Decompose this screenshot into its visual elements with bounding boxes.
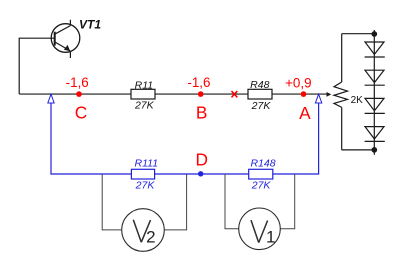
diode D3 xyxy=(365,98,385,113)
svg-text:-1,6: -1,6 xyxy=(66,75,89,90)
diode D1 xyxy=(365,42,385,57)
node B xyxy=(198,91,204,97)
resistor R11 xyxy=(131,79,155,111)
svg-text:R148: R148 xyxy=(250,158,275,170)
svg-text:R111: R111 xyxy=(135,158,159,170)
wire V2 meter loop xyxy=(102,174,186,230)
resistor R48 xyxy=(248,79,272,112)
break mark x on wire xyxy=(232,91,238,97)
wire main horizontal bus xyxy=(19,93,327,95)
svg-text:27K: 27K xyxy=(135,179,156,191)
wire diode column xyxy=(373,30,375,155)
voltmeter V2 xyxy=(122,209,165,252)
wiper arrow into potentiometer xyxy=(327,92,332,97)
svg-text:D: D xyxy=(195,149,207,169)
svg-text:-1,6: -1,6 xyxy=(187,75,210,90)
resistor R148 xyxy=(249,158,276,192)
node D xyxy=(198,171,203,176)
svg-text:27K: 27K xyxy=(251,179,272,191)
node C xyxy=(76,91,82,97)
wire blue probe loop xyxy=(51,103,319,174)
resistor R111 xyxy=(131,158,158,192)
wire left vertical and base feed xyxy=(19,38,55,94)
node A xyxy=(301,91,307,97)
diode D2 xyxy=(365,70,385,85)
transistor Q1 VT1 xyxy=(51,20,80,58)
svg-text:+0,9: +0,9 xyxy=(285,75,311,90)
wire bottom to diode chain xyxy=(342,149,375,151)
svg-text:B: B xyxy=(196,103,208,123)
svg-text:2K: 2K xyxy=(351,95,364,106)
svg-text:27K: 27K xyxy=(251,100,272,112)
svg-text:C: C xyxy=(75,103,87,123)
svg-text:27K: 27K xyxy=(134,99,155,111)
diode D4 xyxy=(365,127,385,142)
junction bottom of diode chain xyxy=(371,147,377,153)
svg-text:2: 2 xyxy=(146,227,155,246)
svg-text:R11: R11 xyxy=(135,79,153,91)
svg-text:VT1: VT1 xyxy=(79,18,101,32)
probe arrow at C side xyxy=(48,94,54,103)
wire V1 meter loop xyxy=(225,174,295,229)
svg-text:A: A xyxy=(299,103,311,123)
wire top to diode chain xyxy=(342,33,375,35)
junction top of diode chain xyxy=(371,31,377,37)
svg-text:1: 1 xyxy=(266,227,275,246)
voltmeter V1 xyxy=(239,208,281,250)
probe arrow at A side xyxy=(315,94,321,103)
potentiometer R 2K xyxy=(334,34,348,150)
svg-text:R48: R48 xyxy=(250,79,269,91)
